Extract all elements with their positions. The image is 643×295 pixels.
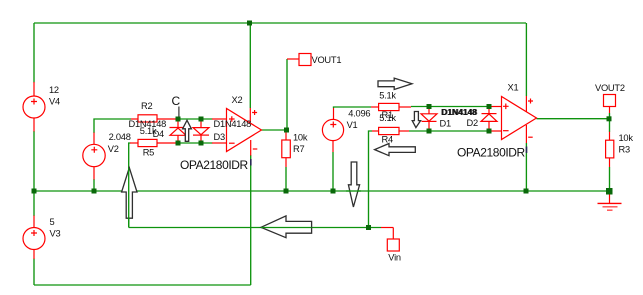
- junction node C rail D3: [199, 117, 204, 122]
- arrow left small (below R4): [375, 144, 416, 156]
- svg-text:12: 12: [49, 85, 59, 95]
- wire X2 negative supply vertical: [250, 155, 252, 285]
- wire overdrawn through big down arrow: [346, 190, 361, 192]
- svg-text:D1: D1: [440, 119, 451, 129]
- port VOUT1: [287, 54, 341, 66]
- wire overdrawn through big left arrow: [261, 227, 312, 229]
- arrow right (above R1): [378, 78, 412, 89]
- svg-text:Vin: Vin: [388, 252, 401, 262]
- wire left edge V4 to bus: [33, 131, 35, 191]
- junction diode rail D2 top: [487, 104, 492, 109]
- resistor R5: [130, 139, 176, 157]
- svg-text:D1N4148: D1N4148: [442, 107, 478, 117]
- svg-text:4.096: 4.096: [348, 109, 370, 119]
- svg-text:V3: V3: [50, 229, 61, 239]
- wire left edge upper (to V4): [33, 23, 35, 83]
- node C label: [172, 94, 181, 118]
- svg-text:D1N4148: D1N4148: [214, 119, 252, 129]
- junction bus V1: [331, 189, 336, 194]
- junction VOUT2 node: [607, 116, 612, 121]
- wire R5 left down to Vin line: [129, 143, 131, 228]
- svg-text:V2: V2: [108, 144, 119, 154]
- arrow down small (right of R1): [412, 112, 420, 128]
- junction lower rail D3: [199, 141, 204, 146]
- arrow up small (at node C): [183, 120, 192, 141]
- arrow left big (bottom): [261, 216, 312, 238]
- svg-text:D1N4148: D1N4148: [129, 119, 167, 129]
- port Vin: [381, 228, 401, 263]
- junction top rail X2 supply: [247, 21, 252, 26]
- svg-text:D3: D3: [214, 132, 225, 142]
- wire ground bus: [34, 190, 609, 192]
- wire bottom rail V-: [34, 284, 251, 286]
- wire V1 top to R1: [334, 107, 372, 108]
- wire V2 bottom to bus: [93, 179, 95, 191]
- svg-text:C: C: [172, 94, 181, 108]
- svg-text:X1: X1: [508, 83, 519, 93]
- ground: [598, 191, 622, 210]
- junction Vin line R4: [366, 225, 371, 230]
- svg-text:V1: V1: [347, 120, 358, 130]
- voltage source V3: [23, 216, 60, 260]
- wire V1 bottom to bus: [332, 152, 334, 191]
- junction diode rail D1 bottom: [427, 129, 432, 134]
- wire left edge bus to V3: [33, 191, 35, 216]
- svg-text:R2: R2: [141, 101, 152, 111]
- op-amp X1: [457, 83, 537, 160]
- wire R3 bottom to bus: [609, 167, 611, 191]
- wire X2 output node: [262, 129, 288, 131]
- diode D2: [467, 107, 498, 132]
- wire R4 left down to Vin junction: [369, 131, 373, 228]
- wire VOUT2 node vertical: [609, 113, 611, 132]
- svg-text:5: 5: [50, 217, 55, 227]
- junction lower rail D4: [176, 141, 181, 146]
- wire overdrawn through big up arrow: [128, 168, 130, 228]
- svg-text:OPA2180IDR: OPA2180IDR: [180, 158, 249, 172]
- svg-text:10k: 10k: [293, 133, 308, 143]
- port VOUT2: [595, 83, 625, 113]
- svg-text:VOUT2: VOUT2: [595, 83, 625, 93]
- resistor R1: [371, 91, 411, 124]
- resistor R3: [606, 132, 634, 167]
- junction X2 output: [284, 128, 289, 133]
- svg-text:X2: X2: [232, 95, 243, 105]
- junction bus X1 supply: [524, 189, 529, 194]
- svg-text:5.1k: 5.1k: [379, 91, 396, 101]
- wire X2 positive supply: [249, 23, 251, 108]
- voltage source V4: [23, 82, 60, 132]
- wire top rail V+: [34, 22, 526, 24]
- junction bus ground: [606, 188, 613, 195]
- voltage source V1: [322, 108, 370, 152]
- svg-text:R4: R4: [382, 135, 393, 145]
- wire X1 output to VOUT2 node: [537, 118, 610, 120]
- wire Vin horizontal line: [129, 227, 381, 229]
- diode D4: [129, 119, 187, 143]
- svg-text:R5: R5: [143, 148, 154, 158]
- wire lower diode rail: [409, 130, 487, 132]
- junction bus R7: [284, 189, 289, 194]
- svg-text:10k: 10k: [619, 133, 634, 143]
- svg-text:5.1k: 5.1k: [379, 113, 396, 123]
- junction diode rail D2 bottom: [487, 129, 492, 134]
- svg-text:2.048: 2.048: [109, 132, 131, 142]
- resistor R7: [282, 132, 308, 167]
- svg-text:R7: R7: [293, 144, 304, 154]
- wire R7 bottom to bus: [285, 167, 287, 191]
- svg-text:V4: V4: [49, 97, 60, 107]
- wire V2 top to R2: [94, 119, 131, 133]
- svg-text:D4: D4: [153, 129, 164, 139]
- junction bus left edge: [32, 189, 37, 194]
- wire R1 right to diode rail: [411, 106, 487, 108]
- wire VOUT1 vertical: [286, 59, 288, 130]
- wire left edge V3 to bottom: [33, 259, 35, 286]
- svg-text:R3: R3: [619, 145, 630, 155]
- junction node C rail D4: [176, 117, 181, 122]
- junction diode rail D1 top: [427, 104, 432, 109]
- voltage source V2: [83, 132, 131, 179]
- arrow down big (middle): [348, 162, 359, 207]
- diode D1: [421, 107, 451, 132]
- svg-text:D2: D2: [467, 118, 478, 128]
- resistor R2: [131, 101, 176, 136]
- resistor R4: [372, 127, 409, 144]
- wire X1 negative supply to bus: [525, 143, 527, 191]
- arrow up big (left): [122, 168, 137, 219]
- junction bus V2: [92, 189, 97, 194]
- wire lower rail to X2 inverting input: [176, 142, 213, 144]
- op-amp X2: [180, 95, 262, 172]
- diode D3: [193, 119, 209, 143]
- wire X1 positive supply: [525, 23, 527, 96]
- wire R7 top: [285, 130, 287, 133]
- svg-text:OPA2180IDR: OPA2180IDR: [457, 146, 526, 160]
- svg-text:VOUT1: VOUT1: [312, 55, 342, 65]
- wire node C rail: [176, 118, 213, 120]
